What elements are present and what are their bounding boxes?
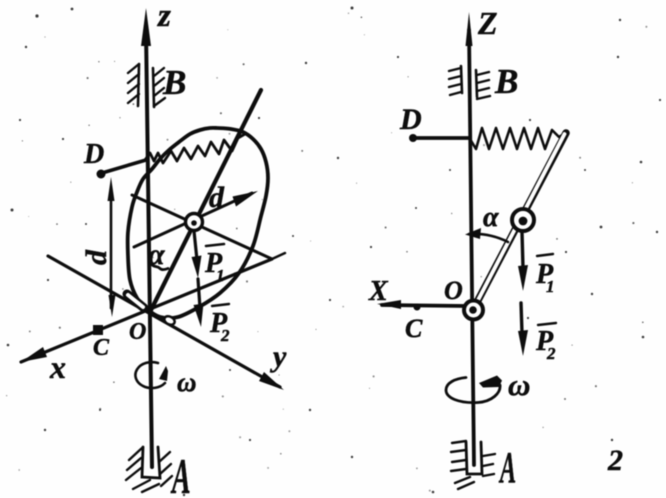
force P1 right label: [537, 254, 553, 256]
dimension line a (vertical): [110, 190, 113, 308]
diameter line B through disc centre: [132, 195, 272, 259]
wire x-axis line through O extended to upper-right: [21, 259, 272, 362]
svg-text:x: x: [49, 349, 66, 385]
svg-text:O: O: [444, 276, 463, 305]
svg-text:C: C: [93, 335, 110, 361]
svg-text:B: B: [494, 62, 518, 101]
svg-text:1: 1: [546, 277, 555, 296]
svg-text:C: C: [405, 314, 423, 343]
z-axis arrowhead right: [466, 12, 473, 46]
svg-text:ω: ω: [508, 367, 530, 402]
spring left panel: [145, 134, 245, 163]
wire y-axis line through O (upper-left to lower-right): [48, 256, 280, 387]
svg-text:Z: Z: [477, 5, 498, 41]
ball at disc centre: [186, 214, 203, 231]
ball on rod right: [512, 209, 534, 231]
disc rim (hand-drawn oval): [128, 128, 268, 318]
svg-text:D: D: [83, 139, 104, 170]
shaft z-axis left: [146, 30, 152, 467]
shaft z-axis right: [469, 30, 474, 465]
force P1 right arrow: [522, 232, 523, 268]
node D dot: [97, 170, 106, 179]
svg-text:A: A: [499, 442, 517, 492]
svg-text:d: d: [209, 181, 225, 214]
svg-text:A: A: [170, 449, 191, 498]
svg-text:2: 2: [546, 344, 556, 363]
force P1 left arrow: [194, 231, 197, 260]
x-axis arrowhead lower-left: [21, 347, 47, 362]
svg-text:2: 2: [220, 326, 230, 345]
angular velocity omega loop right: [446, 378, 500, 403]
pivot O right: [464, 301, 483, 320]
svg-text:z: z: [157, 0, 171, 34]
x-axis extension tail arrow: [272, 253, 285, 259]
force P2 right label: [538, 323, 556, 325]
link D to shaft right: [413, 136, 470, 140]
force P2 left label: [212, 304, 229, 306]
spring right panel: [470, 128, 564, 149]
svg-text:α: α: [148, 238, 165, 271]
rod through disc centre to O: [150, 90, 261, 312]
y-axis arrowhead: [259, 372, 284, 390]
node C dot right: [414, 304, 421, 311]
svg-text:X: X: [368, 276, 389, 307]
bearing A left: cup and hatching: [142, 447, 160, 478]
svg-text:d: d: [80, 249, 113, 265]
rim edge band near O: [127, 294, 144, 308]
link D to shaft: [102, 160, 146, 173]
svg-text:ω: ω: [177, 367, 197, 397]
svg-text:D: D: [399, 103, 422, 136]
force P1 left label: [206, 244, 224, 246]
svg-text:α: α: [483, 202, 499, 233]
force P2 right arrow: [521, 303, 522, 333]
bearing B right: rails and hatching: [461, 66, 462, 93]
angle alpha arc left: [151, 264, 168, 270]
svg-text:1: 1: [216, 266, 225, 285]
x-axis right: [382, 305, 466, 306]
node C square left: [93, 325, 103, 335]
rod right panel (outlined bar): [475, 133, 566, 306]
angular velocity omega loop left: [135, 362, 165, 388]
svg-text:2: 2: [607, 444, 623, 477]
svg-text:O: O: [129, 319, 146, 345]
z-axis arrowhead left: [141, 8, 151, 46]
diameter arrow d: [134, 193, 252, 247]
rim small oval right of shaft: [163, 315, 176, 327]
node D dot right: [409, 134, 417, 142]
svg-text:y: y: [270, 340, 287, 373]
force P2 left arrow: [198, 279, 200, 308]
bearing A right: cup and hatching: [466, 442, 482, 474]
angle alpha arc right: [469, 234, 508, 242]
svg-text:B: B: [162, 63, 186, 102]
bearing B left: rails and hatching: [138, 64, 139, 106]
